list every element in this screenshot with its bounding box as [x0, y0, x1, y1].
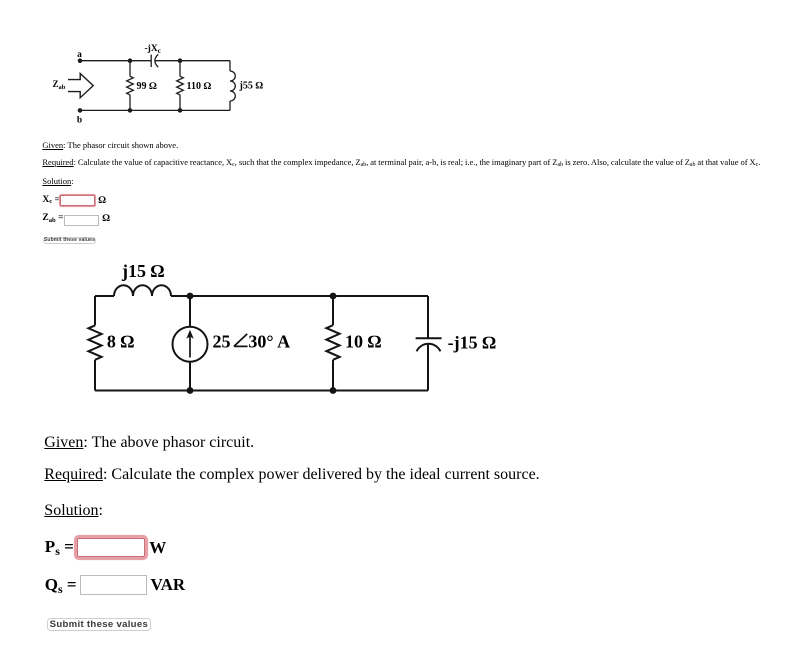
wire bottom b to bottom-right corner — [80, 109, 230, 111]
current source Is circle — [173, 327, 208, 362]
resistor R4 10ohm — [326, 325, 339, 360]
p1 Xc omega — [98, 196, 106, 206]
resistor R1 99ohm branch — [129, 61, 131, 77]
junction dot top of 99ohm — [128, 58, 133, 63]
svg-text:a: a — [77, 50, 82, 60]
p1 submit button — [43, 237, 97, 244]
inductor L1 j55ohm right branch — [229, 61, 231, 71]
inductor L2 j15ohm — [114, 285, 171, 296]
svg-text:110 Ω: 110 Ω — [187, 81, 212, 92]
Zab looking-in arrow — [68, 74, 93, 98]
p1 required line — [42, 158, 760, 167]
junction dot top of 110ohm — [178, 58, 183, 63]
top wire inductor to right corner — [171, 295, 428, 297]
junction dot bottom of 110ohm — [178, 108, 183, 113]
p2 solution line — [44, 503, 103, 519]
junction dot top of source — [187, 293, 194, 300]
bottom wire — [95, 390, 428, 392]
current source arrow head — [186, 330, 193, 339]
p1 given line — [42, 141, 178, 150]
p2 Qs input — [80, 575, 148, 595]
junction dot bottom of 99ohm — [128, 108, 133, 113]
p1 Zab omega — [102, 214, 110, 224]
wire top a to capacitor — [80, 60, 151, 62]
angle symbol — [234, 334, 248, 347]
current source arrow stem — [189, 336, 191, 358]
p2 required line — [44, 467, 539, 483]
capacitor C2 -j15ohm bottom lead — [427, 343, 429, 391]
p1 Zab input — [64, 215, 100, 226]
svg-text:99 Ω: 99 Ω — [137, 81, 158, 92]
svg-text:30° A: 30° A — [248, 332, 290, 352]
left wire below 8ohm — [94, 360, 96, 391]
svg-text:j55 Ω: j55 Ω — [239, 81, 264, 92]
capacitor C (-jXc) left plate — [150, 55, 152, 67]
capacitor C2 -j15ohm top lead — [427, 296, 429, 338]
p2 Qs VAR — [151, 576, 186, 593]
left wire top corner down to 8ohm — [94, 296, 96, 325]
p2 Ps label — [45, 538, 74, 555]
capacitor C2 -j15ohm curved plate — [417, 344, 441, 351]
p2 submit button — [47, 618, 151, 631]
p2 Ps input (red) — [77, 538, 145, 557]
current source Is top lead — [189, 296, 191, 327]
svg-text:25: 25 — [213, 332, 231, 352]
junction dot bottom of 10ohm — [330, 387, 337, 394]
resistor R3 8ohm — [88, 325, 101, 359]
resistor R4 10ohm top lead — [332, 296, 334, 325]
svg-text:j15 Ω: j15 Ω — [121, 261, 164, 281]
svg-text:8 Ω: 8 Ω — [107, 332, 134, 352]
svg-text:-jXc: -jXc — [145, 44, 161, 55]
p1 Xc label — [42, 196, 60, 206]
node a terminal dot — [78, 58, 83, 63]
p2 given line — [44, 435, 254, 451]
p1 solution line — [42, 177, 73, 186]
wire top-left corner to inductor — [95, 295, 114, 297]
node b terminal dot — [78, 108, 83, 113]
p2 Ps W — [149, 539, 166, 556]
p2 Qs label — [45, 576, 77, 593]
current source Is bottom lead — [189, 362, 191, 391]
svg-text:Zab: Zab — [53, 79, 66, 91]
svg-text:b: b — [77, 116, 82, 126]
resistor R4 10ohm bottom lead — [332, 360, 334, 391]
p1 Zab label — [42, 214, 63, 224]
wire capacitor to top-right corner — [155, 60, 230, 62]
p1 Xc input (red) — [60, 195, 95, 206]
resistor R2 110ohm branch — [179, 61, 181, 77]
junction dot bottom of source — [187, 387, 194, 394]
junction dot top of 10ohm — [330, 293, 337, 300]
capacitor C2 -j15ohm flat plate — [416, 337, 442, 339]
svg-text:-j15 Ω: -j15 Ω — [448, 333, 496, 353]
capacitor C (-jXc) curved plate — [155, 54, 158, 67]
svg-text:10 Ω: 10 Ω — [345, 332, 382, 352]
